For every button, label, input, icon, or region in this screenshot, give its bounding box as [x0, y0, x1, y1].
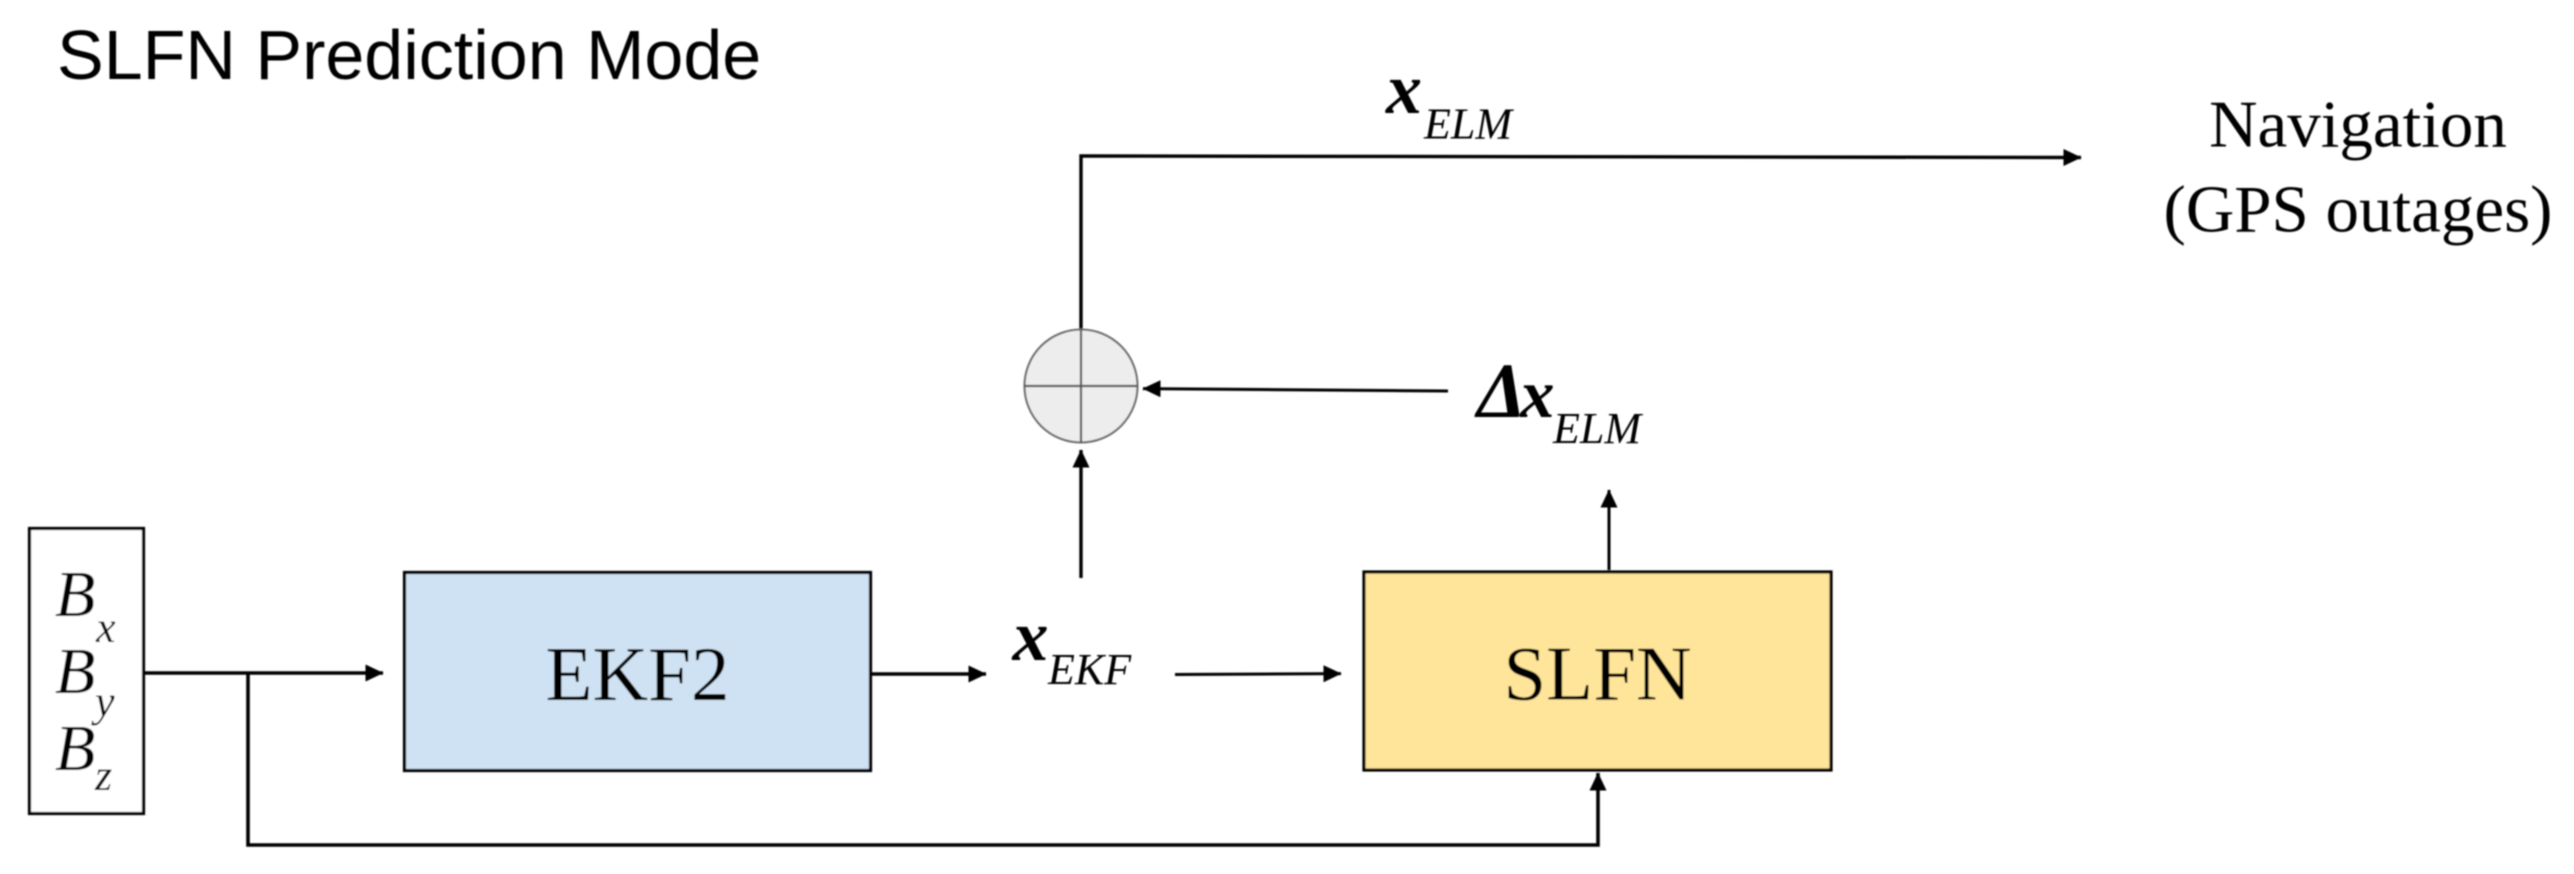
wire xEKF up to summing junction [1079, 450, 1082, 578]
svg-text:SLFN: SLFN [1503, 631, 1691, 717]
wire feedback from node to under SLFN [248, 673, 1598, 845]
wire SLFN up to dxELM [1608, 490, 1611, 570]
block EKF2 [405, 573, 871, 771]
svg-text:ELM: ELM [1552, 404, 1643, 453]
svg-text:B: B [55, 635, 95, 708]
svg-text:ELM: ELM [1423, 100, 1514, 149]
wire xEKF label to SLFN [1175, 672, 1341, 676]
wire B to EKF2 [145, 671, 383, 675]
svg-text:SLFN Prediction Mode: SLFN Prediction Mode [57, 16, 761, 94]
svg-text:(GPS outages): (GPS outages) [2164, 173, 2553, 247]
wire summing junction up and right to Navigation [1081, 156, 2081, 331]
summing junction [1025, 330, 1138, 443]
svg-text:EKF: EKF [1047, 645, 1132, 694]
svg-text:x: x [1385, 49, 1422, 129]
svg-text:Navigation: Navigation [2209, 88, 2507, 162]
svg-text:B: B [55, 712, 95, 785]
svg-text:x: x [1012, 596, 1049, 676]
input box B [30, 529, 144, 814]
svg-text:Δ: Δ [1474, 347, 1526, 434]
wire EKF2 to xEKF label [872, 672, 986, 676]
svg-text:x: x [1519, 356, 1555, 432]
svg-text:x: x [95, 603, 116, 652]
wire dxELM to summing junction [1143, 389, 1448, 391]
block SLFN [1364, 572, 1831, 770]
svg-text:z: z [94, 751, 112, 800]
svg-text:EKF2: EKF2 [546, 631, 730, 717]
svg-text:B: B [55, 558, 95, 631]
